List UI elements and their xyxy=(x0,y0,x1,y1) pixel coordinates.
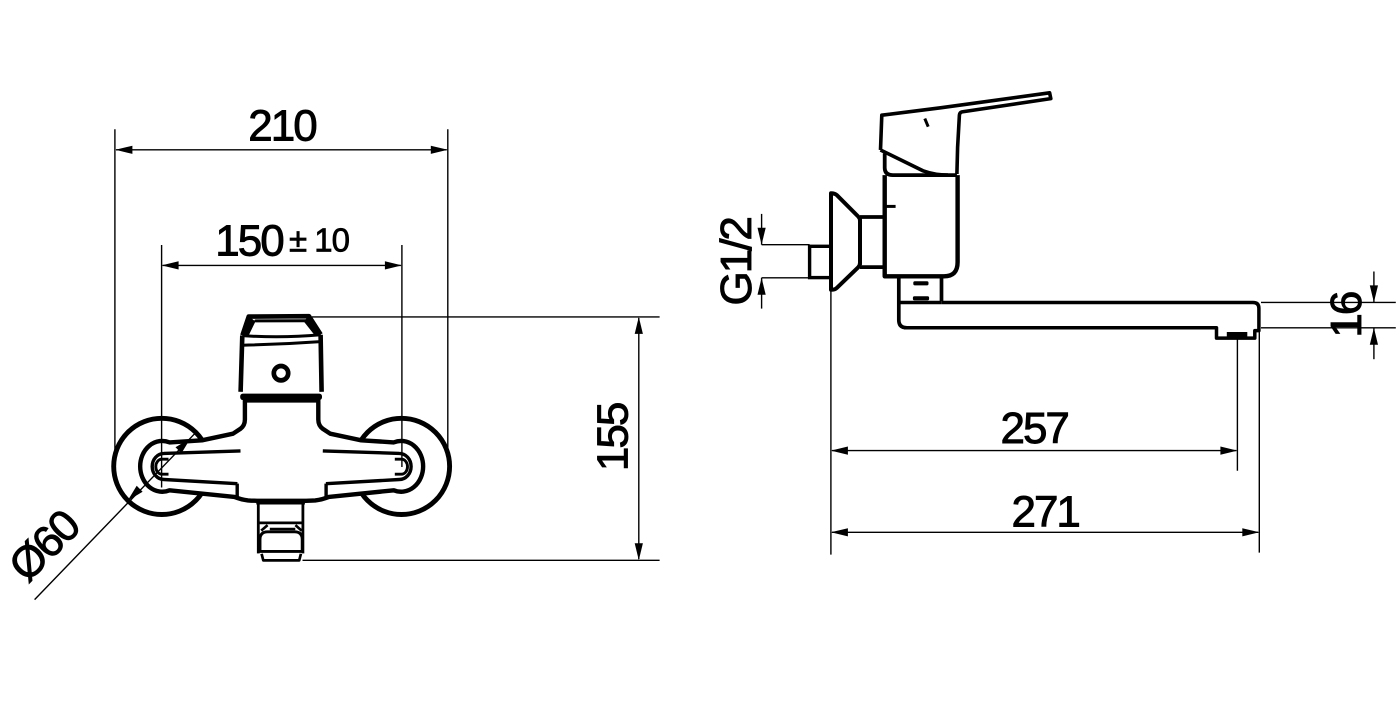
dimension D60 leader xyxy=(35,432,196,599)
left body step line xyxy=(235,484,238,499)
aerator right rail xyxy=(301,502,304,553)
dimension 155 xyxy=(303,317,660,560)
dimension 257 xyxy=(831,291,1238,555)
connector seal mark upper xyxy=(913,281,928,285)
svg-text:G1/2: G1/2 xyxy=(712,218,761,306)
handle cap inner line xyxy=(256,319,308,322)
wall flange cone (side) xyxy=(831,193,860,290)
wall thread stub G1/2 xyxy=(810,246,831,277)
spout (side) xyxy=(904,303,1259,339)
flange nut xyxy=(860,217,885,267)
svg-text:± 10: ± 10 xyxy=(289,222,350,259)
aerator corner diagonal left xyxy=(261,525,267,531)
right wall flange circle xyxy=(353,418,449,514)
dimension G1/2 xyxy=(762,214,810,309)
aerator mid band xyxy=(258,522,303,525)
faucet body outline (front), white fill over circles xyxy=(140,400,423,500)
aerator tip xyxy=(262,554,301,561)
handle lever (side) xyxy=(881,93,1051,174)
left pipe stub arc xyxy=(156,459,169,474)
cartridge dome xyxy=(885,154,957,176)
handle knob cap (front) xyxy=(242,316,320,335)
dimension 271 xyxy=(832,331,1259,552)
handle cap corner wedge left xyxy=(244,317,256,335)
right pipe stub arc xyxy=(395,459,408,474)
inner arm line left (nut profile) xyxy=(152,451,240,484)
left wall flange circle xyxy=(114,418,210,514)
spout aerator outlet band xyxy=(1227,332,1248,337)
handle knob sides xyxy=(241,335,322,392)
handle screw hole xyxy=(274,366,288,380)
dimension 16 xyxy=(1261,272,1396,360)
handle bottom diagonal xyxy=(881,150,949,175)
spout connector verticals xyxy=(899,278,942,328)
handle chamfer line 1 xyxy=(242,335,320,337)
handle chamfer line 2 xyxy=(243,342,321,346)
dimension 150 +-10 xyxy=(162,245,402,488)
connector seal mark lower xyxy=(913,296,929,300)
svg-text:271: 271 xyxy=(1011,488,1079,537)
inner arm line right xyxy=(323,451,411,484)
handle crease tick xyxy=(925,119,928,127)
spout seam under connector xyxy=(899,301,942,305)
aerator top junction band xyxy=(256,501,305,504)
svg-text:257: 257 xyxy=(1000,404,1068,453)
aerator left rail xyxy=(257,502,260,553)
svg-text:155: 155 xyxy=(589,403,638,471)
dimension 210 xyxy=(115,129,448,451)
aerator collar line xyxy=(270,528,296,531)
svg-text:150: 150 xyxy=(215,216,283,265)
body (side) xyxy=(885,175,958,276)
body tick xyxy=(885,205,896,208)
aerator cap xyxy=(260,532,302,552)
handle cap corner wedge right xyxy=(304,317,320,334)
svg-text:16: 16 xyxy=(1322,292,1371,337)
aerator corner diagonal right xyxy=(295,525,301,531)
handle bottom band xyxy=(240,394,322,400)
right body step line xyxy=(324,484,327,499)
svg-text:210: 210 xyxy=(248,102,316,151)
